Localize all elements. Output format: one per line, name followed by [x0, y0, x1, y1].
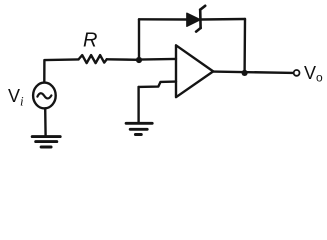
- wire node to op-amp inverting input: [139, 58, 176, 61]
- zener diode: [187, 6, 205, 32]
- wire zener cathode to top right corner: [201, 18, 245, 21]
- wire source to resistor: [44, 59, 78, 82]
- junction dot output node: [242, 70, 248, 76]
- ground source: [32, 137, 60, 147]
- source Vi: [33, 83, 56, 109]
- svg-text:Vi: Vi: [8, 86, 24, 109]
- resistor R: [79, 55, 107, 63]
- wire source to ground: [44, 108, 47, 136]
- wire feedback left vertical: [138, 19, 140, 60]
- wire op-amp output: [213, 72, 293, 73]
- output terminal Vo: [294, 70, 300, 76]
- node junction dot: [136, 57, 142, 63]
- wire non-inverting input to ground: [137, 87, 139, 123]
- wire top horizontal to zener anode: [139, 18, 187, 21]
- ground op-amp input: [126, 123, 152, 134]
- wire resistor to node: [107, 58, 139, 61]
- wire op-amp non-inverting input: [139, 82, 176, 87]
- svg-text:Vo: Vo: [304, 63, 323, 85]
- op-amp U1: [176, 45, 213, 97]
- svg-text:R: R: [83, 30, 97, 52]
- wire feedback right vertical: [243, 19, 246, 73]
